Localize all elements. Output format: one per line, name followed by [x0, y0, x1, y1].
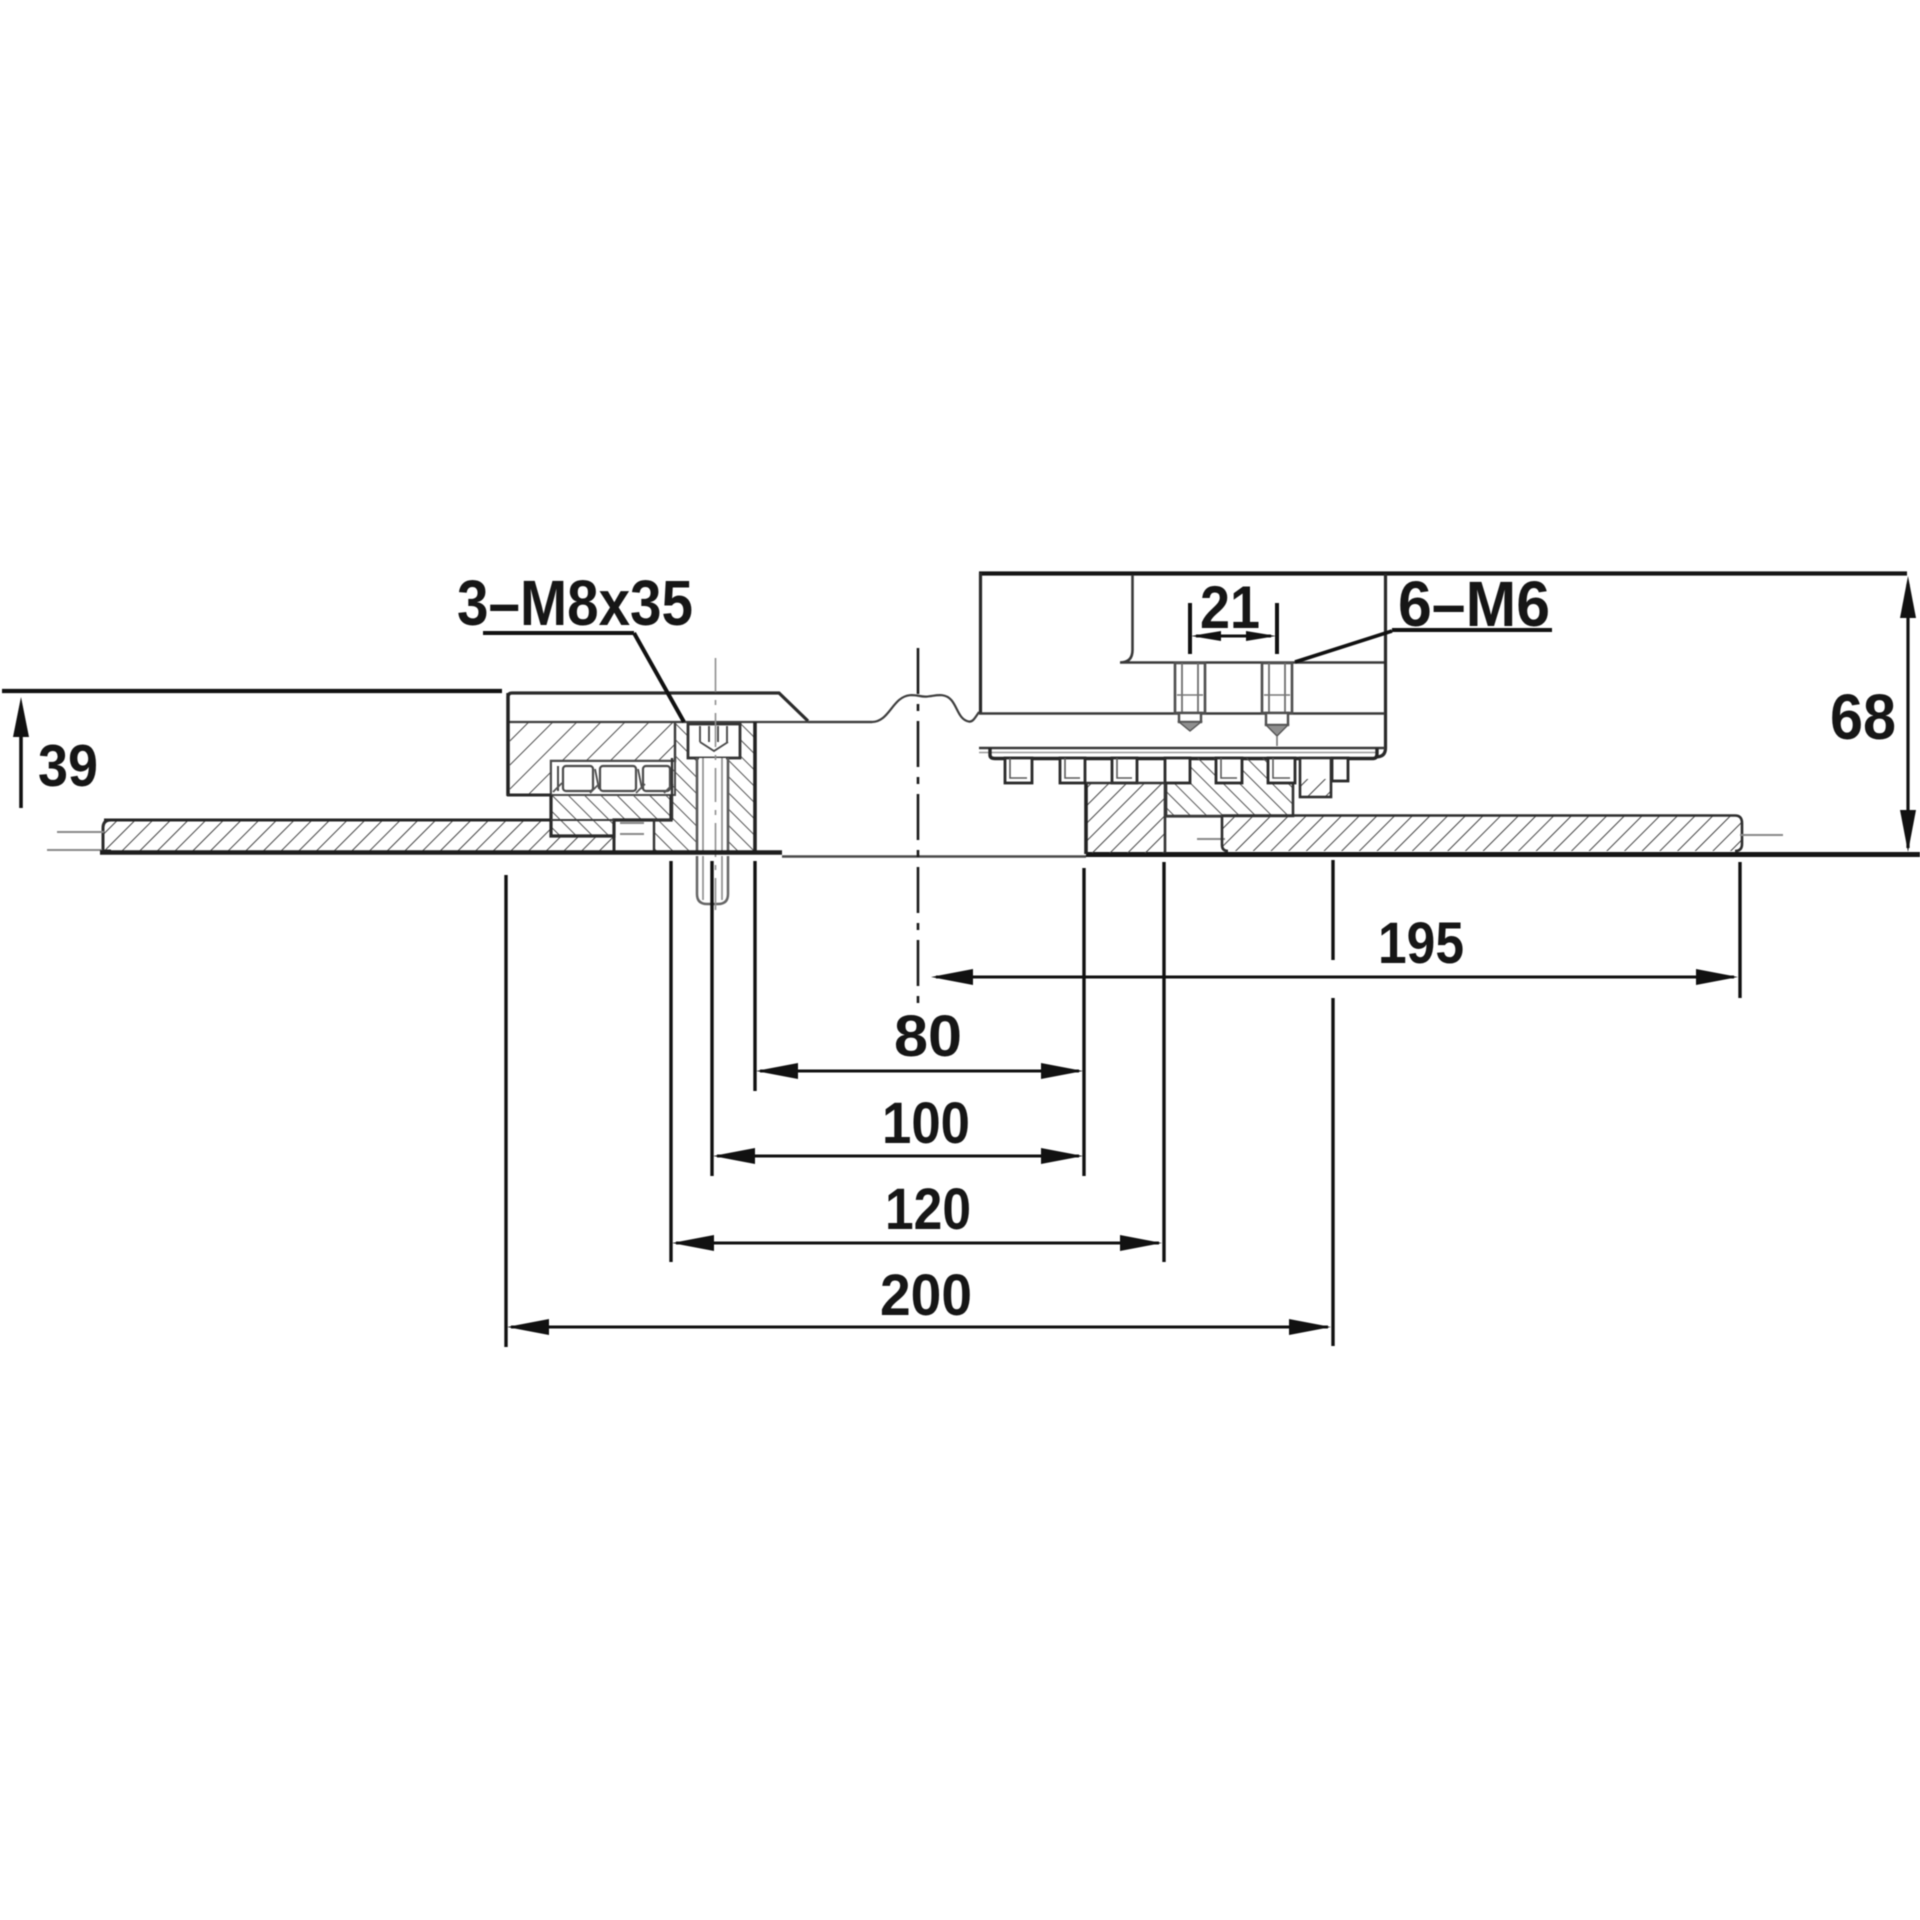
- base line (ground): [100, 850, 782, 854]
- gap step lines left of right plate: [1165, 815, 1222, 817]
- label 3-M8x35 with leader: [457, 567, 693, 722]
- dim 100: [712, 861, 1083, 1176]
- right block outline: [979, 573, 1386, 759]
- clamp lower lip (hatched, grips plate): [551, 795, 671, 836]
- dim 80: [755, 861, 1084, 1176]
- left support column (hatched): [1086, 782, 1165, 854]
- dim 21 (screw spacing): [1190, 574, 1277, 654]
- roller cage with rollers: [551, 761, 675, 795]
- svg-text:120: 120: [885, 1177, 971, 1242]
- label 6-M6 with leader: [1295, 568, 1552, 662]
- svg-text:21: 21: [1200, 574, 1260, 641]
- svg-text:80: 80: [894, 1004, 962, 1069]
- left plate centre ticks: [57, 831, 104, 833]
- svg-text:100: 100: [882, 1091, 970, 1156]
- dim 200: [506, 860, 1333, 1347]
- svg-text:200: 200: [880, 1263, 972, 1328]
- svg-text:195: 195: [1378, 911, 1464, 976]
- teeth row under flange: [1005, 758, 1348, 783]
- bolt centreline: [715, 658, 717, 910]
- bolt threaded tip below base line: [697, 856, 728, 904]
- bolt collar left (hatched): [654, 723, 697, 852]
- left table plate (hatched section): [103, 820, 614, 851]
- main centreline (dash-dot): [917, 648, 920, 1005]
- serrated jaw mass (hatched) with white teeth row: [1166, 758, 1293, 816]
- middle profile line with break bump: [808, 695, 979, 722]
- clamp cap (top white piece): [508, 693, 872, 795]
- right table plate (hatched section): [1222, 816, 1742, 852]
- svg-text:68: 68: [1830, 681, 1896, 753]
- plate top bold edge: [104, 819, 551, 822]
- bolt collar right (hatched): [728, 722, 755, 853]
- tall hatched tooth / step: [1300, 758, 1331, 797]
- set screws 6-M6: [1175, 663, 1205, 731]
- dim 68 (right height): [1830, 576, 1916, 852]
- right block top bold line + 68 extension: [979, 571, 1907, 575]
- clamp upper hatched block: [508, 723, 675, 795]
- dim 195: [931, 862, 1740, 998]
- dim 39 (left height): [2, 691, 502, 808]
- clamp outer bold edges: [506, 693, 509, 796]
- svg-text:3–M8x35: 3–M8x35: [457, 567, 693, 639]
- dim 120: [671, 861, 1164, 1262]
- svg-text:39: 39: [38, 733, 98, 799]
- socket head cap screw M8x35: [688, 724, 740, 852]
